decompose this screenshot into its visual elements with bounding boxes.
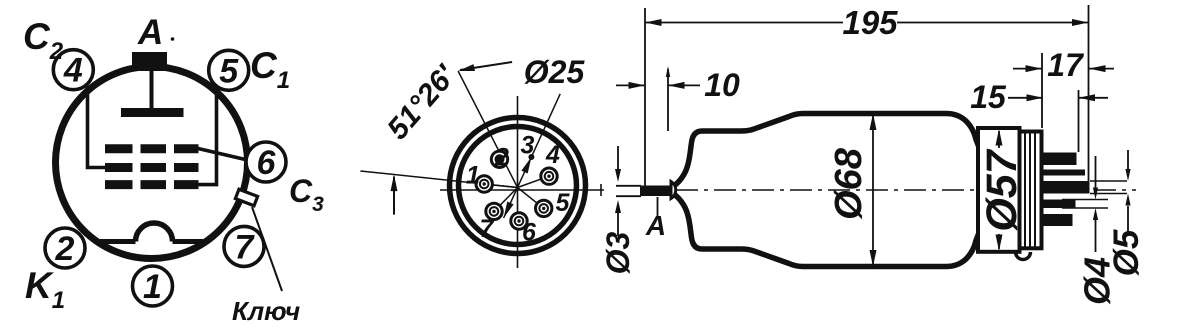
leader line to Kljuch label bbox=[252, 207, 282, 291]
envelope outline top bbox=[672, 114, 979, 188]
dimension 17 left arrow bbox=[1013, 68, 1042, 70]
pin side view 1 bbox=[1042, 153, 1077, 166]
dimension 10 line right arrow bbox=[668, 84, 700, 86]
wire pin6 to grid C3 bbox=[197, 148, 249, 160]
base ring bbox=[1020, 132, 1042, 249]
svg-text:A: A bbox=[137, 13, 163, 52]
angle dimension arrow at pin2 line bbox=[460, 62, 512, 70]
base shell bbox=[978, 128, 1020, 252]
anode terminal A (top cap) bbox=[132, 52, 167, 71]
grid C2 row (middle) bbox=[105, 163, 133, 172]
radial centerline pin 4 bbox=[518, 176, 550, 187]
svg-text:Ø68: Ø68 bbox=[828, 147, 870, 220]
svg-text:6: 6 bbox=[257, 144, 277, 182]
pin side view 4 bbox=[1042, 200, 1076, 209]
svg-text:2: 2 bbox=[494, 144, 509, 172]
dimension 17 right arrow bbox=[1089, 68, 1114, 70]
pin 6 circle bbox=[246, 142, 286, 182]
grid C3 row (top) bbox=[105, 144, 133, 153]
svg-text:C1: C1 bbox=[250, 45, 290, 94]
svg-text:10: 10 bbox=[704, 67, 740, 103]
leader to A label bbox=[657, 197, 659, 216]
svg-text:7: 7 bbox=[235, 228, 256, 266]
svg-text:5: 5 bbox=[219, 52, 239, 90]
svg-text:2: 2 bbox=[55, 230, 75, 268]
base outer circle bbox=[450, 118, 586, 254]
dimension d3 ticks bbox=[616, 185, 641, 187]
dimension 15 left arrow bbox=[1008, 97, 1043, 99]
anode tip pin bbox=[640, 186, 672, 197]
angle dimension arrow at pin1 line bbox=[393, 177, 395, 215]
svg-text:C3: C3 bbox=[289, 173, 324, 216]
pin side view 3 bbox=[1042, 181, 1090, 194]
base key bump bbox=[1016, 252, 1031, 260]
svg-text:195: 195 bbox=[842, 4, 898, 41]
pin side view 2 bbox=[1042, 170, 1086, 176]
diameter 25 dimension line bbox=[504, 94, 561, 218]
svg-text:Ø57: Ø57 bbox=[978, 148, 1026, 231]
pin 5 circle bbox=[209, 50, 249, 90]
pin 4 circle bbox=[53, 50, 93, 90]
svg-text:17: 17 bbox=[1047, 47, 1085, 83]
pin 2 bbox=[491, 151, 507, 167]
dimension d68 line bbox=[872, 115, 874, 265]
base horizontal centerline bbox=[440, 189, 604, 191]
anode tip seal bbox=[671, 182, 676, 199]
base inner circle bbox=[459, 127, 577, 245]
pin side view 5 bbox=[1042, 214, 1073, 226]
dimension 17 extension line bbox=[1041, 53, 1043, 128]
angle dimension line through pin 1 bbox=[360, 171, 517, 188]
svg-text:1: 1 bbox=[143, 268, 162, 306]
svg-text:4: 4 bbox=[63, 52, 83, 90]
dimension d4 arrows bbox=[1095, 156, 1097, 188]
pin 1 circle bbox=[133, 266, 173, 306]
label d57 bbox=[985, 148, 1017, 234]
dimension d57 line bbox=[998, 131, 1000, 249]
svg-text:7: 7 bbox=[480, 215, 495, 243]
radial centerline pin 1 bbox=[484, 184, 517, 188]
svg-text:Ø3: Ø3 bbox=[600, 231, 636, 274]
radial centerline pin 5 bbox=[518, 188, 544, 209]
base vertical centerline bbox=[517, 96, 519, 268]
tube axis centerline bbox=[676, 189, 1136, 191]
pin 2 circle bbox=[45, 228, 85, 268]
angle dimension line through pin 2 bbox=[458, 71, 517, 188]
cathode heater bump bbox=[136, 223, 173, 242]
pin 4 bbox=[541, 168, 557, 184]
svg-text:6: 6 bbox=[522, 219, 537, 247]
key tab on envelope bbox=[235, 189, 257, 206]
anode plate bbox=[121, 108, 184, 117]
radial centerline pin 7 bbox=[494, 188, 518, 212]
grid C1 row (bottom) bbox=[105, 180, 133, 189]
svg-text:4: 4 bbox=[545, 141, 560, 169]
dimension 195 extension line right bbox=[1088, 5, 1090, 190]
svg-text:Ø25: Ø25 bbox=[524, 54, 586, 90]
dimension 195 extension line left bbox=[644, 8, 646, 186]
wire pin5 to grid C1 bbox=[199, 86, 217, 185]
svg-text:C2: C2 bbox=[23, 16, 64, 65]
envelope outline bottom bbox=[672, 193, 979, 267]
dimension d3 arrows bbox=[617, 146, 619, 170]
dimension 10 extension line bbox=[667, 69, 669, 131]
tube envelope circle bbox=[56, 67, 248, 259]
svg-text:K1: K1 bbox=[25, 265, 65, 314]
pin 6 bbox=[511, 213, 527, 229]
dimension 195 line bbox=[645, 22, 843, 24]
wire pin4 to grid C2 bbox=[88, 86, 106, 168]
svg-text:15: 15 bbox=[970, 79, 1007, 115]
dimension 15 extension line bbox=[1078, 90, 1080, 152]
svg-text:5: 5 bbox=[556, 189, 571, 217]
pin 7 bbox=[486, 203, 502, 219]
pin 7 circle bbox=[224, 226, 264, 266]
dimension 10 line left arrow bbox=[616, 84, 645, 86]
wire anode stem bbox=[150, 70, 154, 110]
svg-text:Ø5: Ø5 bbox=[1107, 229, 1146, 276]
pin 5 bbox=[536, 200, 552, 216]
dimension 15 right arrow bbox=[1079, 97, 1109, 99]
svg-text:1: 1 bbox=[466, 162, 480, 190]
cathode line bbox=[100, 239, 136, 244]
svg-text:3: 3 bbox=[521, 132, 535, 160]
svg-text:A: A bbox=[645, 210, 666, 241]
svg-text:51°26′: 51°26′ bbox=[381, 58, 463, 146]
dimension d5 ticks bbox=[1090, 180, 1127, 182]
pin 3 bbox=[528, 154, 534, 160]
svg-text:Ключ: Ключ bbox=[232, 296, 300, 326]
dimension d5 arrows bbox=[1127, 150, 1129, 169]
pin 1 bbox=[476, 176, 492, 192]
